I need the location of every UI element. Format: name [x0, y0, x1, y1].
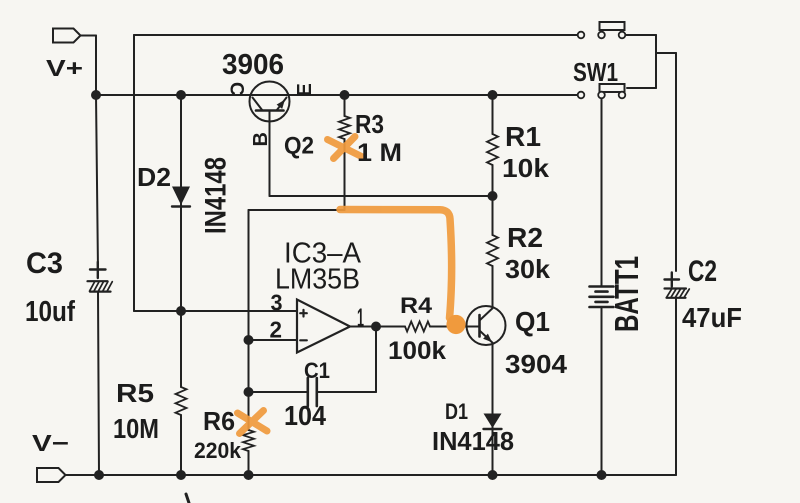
svg-text:Q2: Q2 [284, 133, 314, 160]
svg-text:E: E [294, 83, 316, 96]
svg-text:10M: 10M [113, 413, 159, 444]
svg-text:R4: R4 [400, 293, 433, 318]
svg-text:Q1: Q1 [515, 306, 550, 337]
svg-text:47uF: 47uF [682, 302, 742, 333]
svg-text:R5: R5 [116, 378, 154, 408]
svg-text:IN4148: IN4148 [200, 157, 233, 234]
svg-text:R6: R6 [203, 406, 235, 436]
svg-text:LM35B: LM35B [275, 264, 360, 296]
svg-text:D1: D1 [445, 399, 468, 424]
svg-text:C2: C2 [688, 255, 717, 288]
svg-text:SW1: SW1 [573, 57, 618, 87]
svg-text:C3: C3 [26, 247, 63, 280]
svg-text:3: 3 [271, 290, 283, 316]
svg-text:10uf: 10uf [25, 296, 75, 328]
svg-text:1: 1 [357, 302, 364, 332]
svg-text:2: 2 [270, 317, 283, 343]
svg-text:D2: D2 [137, 162, 171, 192]
svg-text:V+: V+ [46, 55, 83, 81]
svg-text:220k: 220k [194, 438, 242, 463]
svg-text:V−: V− [32, 430, 69, 456]
svg-text:B: B [250, 132, 272, 146]
svg-text:BATT1: BATT1 [608, 256, 645, 332]
svg-text:R3: R3 [355, 109, 384, 139]
svg-text:IN4148: IN4148 [432, 426, 514, 456]
svg-text:C: C [226, 82, 247, 96]
svg-text:10k: 10k [502, 153, 550, 183]
svg-text:3906: 3906 [222, 49, 284, 81]
svg-text:30k: 30k [505, 254, 551, 284]
svg-text:104: 104 [284, 400, 326, 431]
svg-text:R2: R2 [507, 222, 543, 253]
svg-text:R1: R1 [505, 121, 541, 152]
svg-text:1 M: 1 M [357, 139, 402, 167]
svg-text:3904: 3904 [505, 349, 568, 379]
svg-text:C1: C1 [304, 358, 330, 383]
svg-text:100k: 100k [388, 337, 446, 365]
